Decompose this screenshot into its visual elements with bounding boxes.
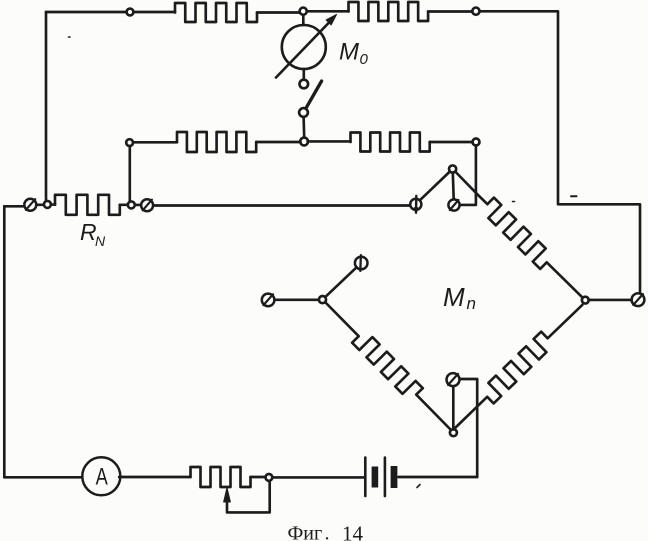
svg-text:14: 14 [342,521,364,541]
svg-text:n: n [467,294,476,313]
svg-text:0: 0 [360,51,369,68]
svg-text:A: A [96,463,109,490]
svg-text:.: . [325,523,330,541]
svg-text:N: N [95,233,106,249]
svg-text:M: M [443,282,465,312]
svg-text:M: M [339,39,359,66]
svg-text:Фиг: Фиг [288,523,323,541]
